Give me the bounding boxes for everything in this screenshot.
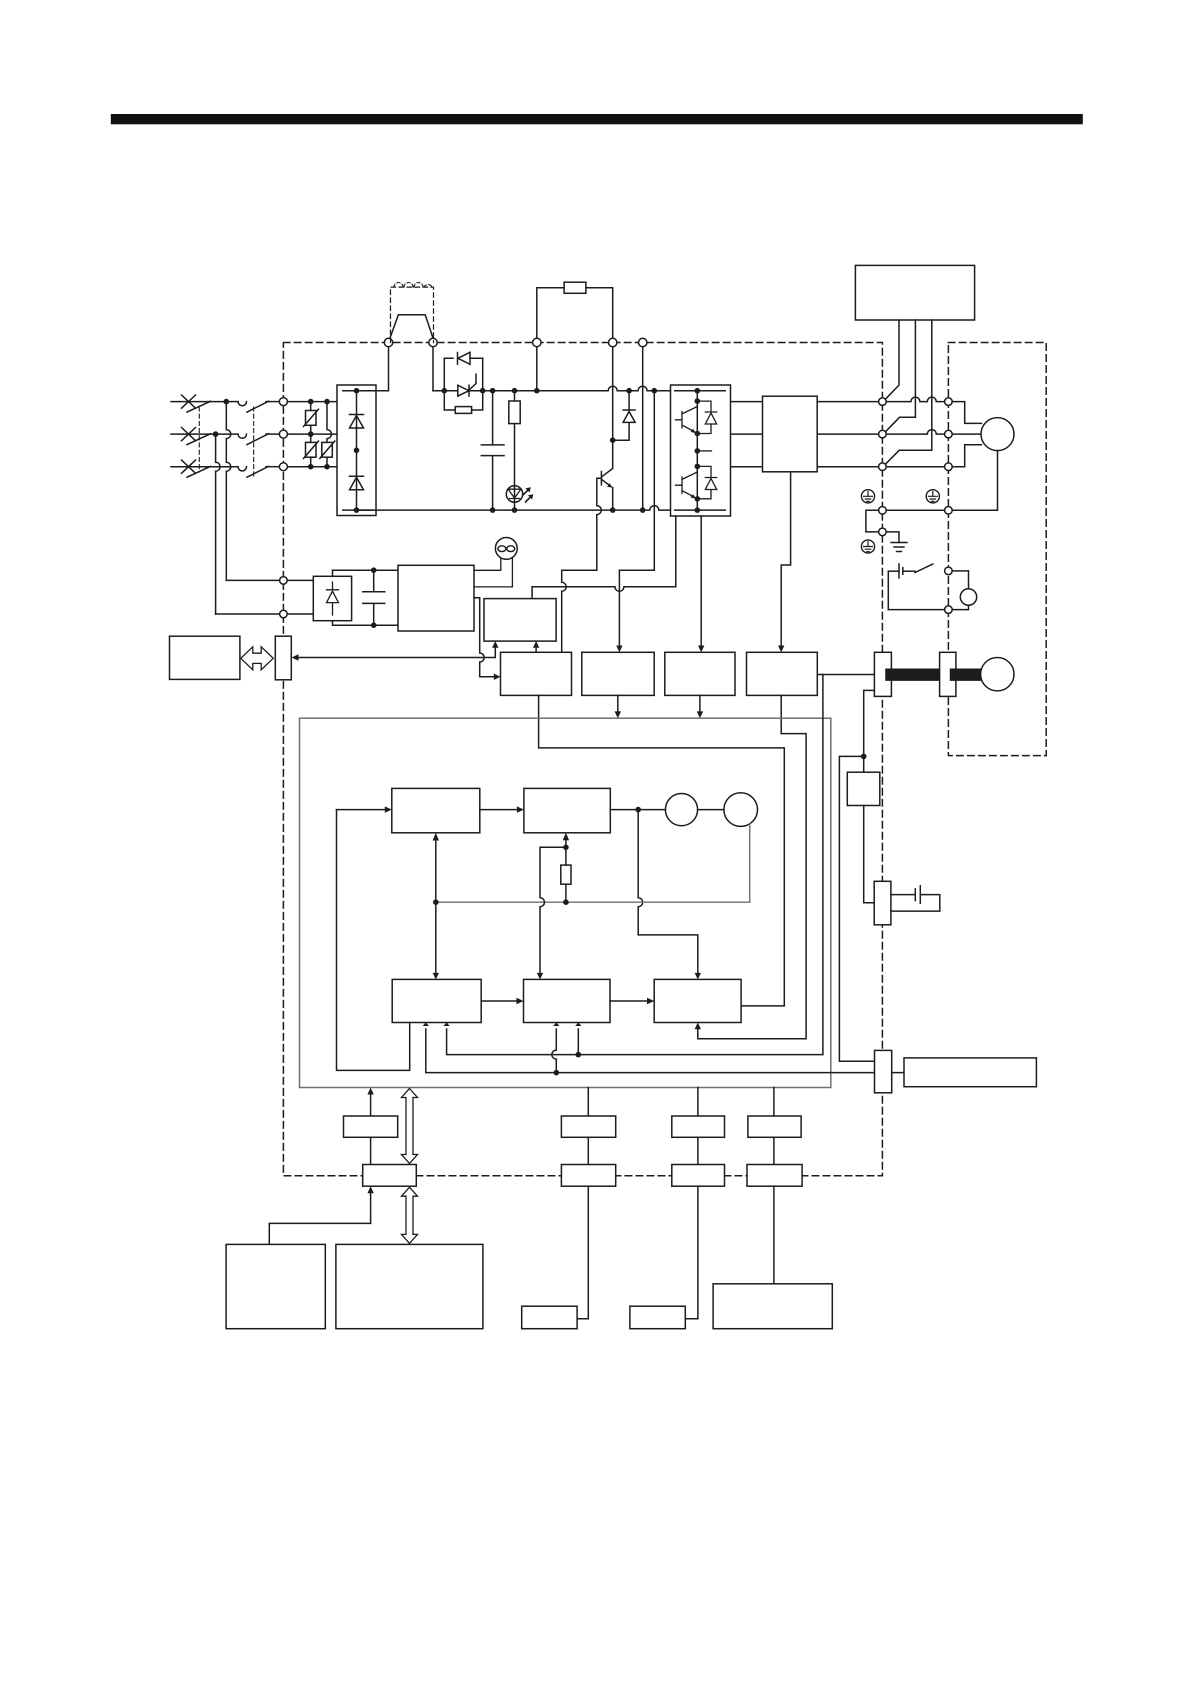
bottom wide box [713,1284,832,1329]
fuse X phase T [182,460,196,473]
speed control box B3 [654,979,741,1022]
brake bottom lead [888,609,944,611]
control DC plus rail [333,570,399,576]
wire L11 to rectifier [287,579,313,581]
module mid tap [697,450,711,452]
fuse X phase R [182,395,196,408]
arrow into box4 top [778,646,784,653]
wire motor PE to amplifier PE [886,509,944,511]
junction dot phase R [224,399,230,405]
external box lower left 2 [336,1244,483,1328]
fan wire V [886,320,915,431]
wire contact down to P bus [432,347,434,391]
CN2 connector [874,652,891,696]
wire command path CN1 line [426,1029,875,1073]
analog monitor chain c3 [697,1088,699,1117]
arrow box1 to protection box [535,647,537,653]
brake terminal B1 [945,567,953,575]
bridge top rail [343,390,373,392]
detector feedback wire to box4 [781,472,790,649]
arrow resistor into boxA2 bottom [565,840,567,848]
motor terminal U [945,398,953,406]
wire command into boxA1 [337,809,386,811]
wire phase R dot to MC [226,401,238,403]
regenerative option resistor [564,282,586,293]
wire V terminal to motor terminal (hops fan wire) [886,430,944,435]
wire CN1 branch into boxB2 (hops) [552,1029,557,1073]
arrow into boxB3 bottom [695,1023,701,1030]
control power supply box [398,565,474,631]
terminal L2 [279,430,287,438]
module emitter sense wire to protection box [532,516,676,599]
wire terminal C down (crosses P bus) [612,347,614,441]
arrow into CN3 right [292,654,299,660]
terminal C [609,338,617,346]
brake coil [960,589,976,605]
module output V [731,433,763,435]
position control box B2 [524,979,611,1022]
fuse X phase S [182,428,196,441]
hollow arrow CN1A to external box [402,1187,418,1243]
header rule bar [111,114,1083,124]
bypass diode (points left) [458,352,471,364]
regen freewheel diode [613,391,635,441]
bypass top rail right [470,358,483,390]
encoder circle [981,658,1014,691]
breaker blade phase T [187,466,211,477]
brake coil wires [952,571,968,610]
wire L1 to rectifier [287,401,337,403]
arrow up into protection box [492,641,498,648]
earth symbol [891,543,907,552]
fan wire U [886,320,899,398]
wire W terminal to motor terminal [886,466,944,468]
inrush thyristor bypass: left rail [444,358,453,390]
terminal L11 [280,577,288,585]
MC blade phase T [247,466,269,477]
amplifier PE terminal upper [879,507,887,515]
current detection box4 [747,652,818,695]
model circle 1 [665,794,697,826]
CN1 connector [875,1050,892,1092]
charge LED [506,486,522,502]
breaker blade phase S [187,434,211,445]
wire to L11 terminal [226,579,279,581]
terminal contact left [384,338,392,346]
varistor S-T [310,434,312,442]
wire bridge P output up to contact [357,347,389,391]
charge lamp return wire [474,558,512,587]
amplifier PE terminal lower [879,528,887,536]
digital I/O chain c2 [587,1088,589,1117]
breaker blade phase R [187,401,211,412]
brake power supply loop left [887,571,889,609]
arrow into alarm box2 top [616,646,622,653]
regen transistor [601,440,612,486]
encoder cable thick [891,669,939,681]
brake switch blade [915,564,933,573]
wire c2 to bottom small box 1 [577,1186,588,1319]
battery long plate [898,564,900,578]
module center leg [696,391,698,510]
base drive box3 [665,652,735,695]
detector output wires to terminals [817,402,878,467]
servo motor circle [981,418,1014,451]
wire c3 to bottom small box 2 [685,1186,698,1319]
wire battery to switch [903,570,915,572]
bypass resistor loop lower [444,391,455,410]
junction dots varistor taps [308,399,314,405]
motor winding wires [952,402,981,467]
terminal L3 [279,463,287,471]
comm chain c4 [773,1088,775,1117]
thyristor gate [470,374,477,389]
control DC minus rail [333,621,399,626]
bridge bottom rail [343,509,373,511]
wire CN2 lower to encoder interface box [864,690,875,772]
PE jumper [866,510,879,532]
N bus [357,506,671,510]
arrow into box3 top [698,646,704,653]
P bus voltage tap wire [619,391,654,649]
junction dot phase S [213,431,219,437]
wire U terminal to motor terminal (hops fan wires) [886,397,944,402]
wire down to L11 from phase R dot (hops S,T) [226,402,231,581]
connector c2 [561,1165,615,1187]
current detector box [763,396,818,472]
CN3 connector [275,636,291,680]
arrow box3 down to controller [699,695,701,714]
wire resistor branch to boxB2 (hops feedback) [540,847,566,976]
encoder cable thick motor side [956,669,982,681]
wire CN1 to command device [892,1072,904,1074]
display unit box [170,636,240,679]
servo amplifier dashed enclosure [283,343,882,1176]
bridge diode lower [350,476,364,490]
varistor R-T (hops S) [327,402,332,443]
PE symbol left lower [861,540,874,553]
terminal P [533,338,541,346]
bottom small box 2 [630,1306,685,1329]
inrush relay contact blade (trapezoid) [390,315,433,338]
MC blade phase R [247,401,269,412]
wire L2 to rectifier [287,433,337,435]
wire interface box to battery connector [864,806,875,903]
wire boxB1 to boxB2 [481,1000,516,1002]
module output W [731,466,763,468]
bidirectional hollow arrow display-CN3 [241,647,273,670]
terminal U [879,398,887,406]
module N rail [675,509,725,511]
motor ground wire [952,451,997,511]
brake battery top lead [888,570,899,572]
wire c4 to bottom wide box [773,1186,775,1284]
terminal contact right [429,338,437,346]
wire to L21 terminal [216,613,280,615]
cooling fan box [855,265,974,320]
module IGBT upper [676,407,698,432]
main smoothing capacitor [481,391,504,510]
wire boxA1 feedback vertical [435,840,437,976]
wire c1 to external controller box [370,1190,372,1223]
MC contact hook phase T [238,467,246,471]
module diode upper [697,401,716,433]
inrush relay dashed coil outline [391,287,434,342]
wire power supply to box1 [474,598,497,677]
MC contact hook phase S [216,434,247,438]
I/F chain arrow up into controller [370,1091,372,1116]
controller outer block [300,718,831,1087]
model speed control boxA2 [524,788,610,832]
virtual encoder resistor [565,884,567,902]
wire model torque tap down to boxB3 (hops feedback) [638,810,698,976]
wire phase T input [171,466,238,468]
wire L21 to rectifier [287,613,313,615]
brake terminal B2 [945,606,953,614]
overvoltage detection box2 [582,652,654,695]
module diode lower [697,466,716,498]
control rectifier box [313,576,351,620]
terminal W [879,463,887,471]
control rectifier diode [327,582,339,615]
PE symbol motor side [926,490,939,503]
IPM inverter module box [671,385,731,516]
encoder interface box [847,772,880,805]
wire box1 to current control [539,695,785,1006]
MCCB gang dashed tie [198,407,200,472]
wire box4 to current feedback [698,695,806,1038]
module output U [731,401,763,403]
terminal L1 [279,398,287,406]
charge lamp [495,538,517,560]
diode bridge rectifier box [337,385,376,516]
PE symbol left upper [861,490,874,503]
bridge diode upper [350,415,364,429]
terminal D [639,338,647,346]
wire phase S to terminal [266,433,280,435]
wire boxB1 output to boxA1 input [337,810,410,1071]
motor terminal W [945,463,953,471]
arrow into box1 left [494,674,501,680]
fan wire W [886,320,932,463]
control filter capacitor [363,570,385,625]
bridge center conductor [356,391,358,510]
wire to earth [886,532,899,543]
terminal L21 [280,610,288,618]
wire phase R input [171,401,226,403]
wire encoder pulse line [447,675,823,1055]
overcurrent protection box [484,599,556,642]
wire phase T to terminal [266,466,280,468]
battery connector [874,881,891,925]
connector c1 [363,1165,417,1187]
servo motor dashed enclosure [948,343,1046,756]
MC blade phase S [247,434,269,445]
motor encoder connector [940,652,956,696]
module gate wire to drive box3 [700,516,702,649]
motor ground terminal [945,507,953,515]
charge LED dropping resistor [514,391,516,401]
battery short plate [902,568,904,575]
battery for absolute encoder [891,886,940,911]
wire regen resistor left lead [537,288,564,339]
wire boxA2 to circles [610,809,665,811]
I/F box [344,1116,398,1137]
model position control boxA1 [392,788,480,832]
hollow arrow controller-CN1A [402,1089,418,1164]
wire phase S input [171,433,216,435]
bottom small box 1 [522,1306,577,1329]
module IGBT lower [676,472,698,497]
connector c3 [672,1165,725,1187]
wire box4 to CN2 [817,674,874,676]
wire L3 to rectifier [287,466,337,468]
wire boxA1 to boxA2 [480,809,517,811]
LED emission arrows [523,489,529,495]
module P rail [675,390,725,392]
external box lower left 1 [226,1244,325,1328]
regen transistor base wire (hops N bus) [562,478,602,652]
model feedback line (grey) [436,824,750,902]
wire terminal D down to N bus [642,347,644,510]
wire terminal P to bus [536,347,538,391]
model circle 2 [724,793,758,827]
arrow box2 down to controller [617,695,619,714]
MC contact hook phase R [238,402,246,406]
connector c4 [747,1165,802,1187]
wire down to L21 from phase S dot (hops T) [216,434,221,614]
thyristor in bus [458,385,469,396]
wire boxB2 to boxB3 [610,1000,647,1002]
wire interface tap to CN1 [839,756,874,1061]
varistor R-S [310,402,312,411]
terminal V [879,430,887,438]
P bus [433,386,671,391]
charge lamp feed wire [474,558,501,570]
voltage detection box1 [501,652,572,695]
motor terminal V [945,430,953,438]
MC gang dashed tie [253,407,255,478]
command device box [904,1058,1036,1087]
wire I/F box to CN1A connector [370,1137,372,1164]
wire protection to CN3 (alarm) [297,645,495,658]
wire phase R to terminal [266,401,280,403]
command pulse box B1 [392,979,481,1022]
wire branch into boxB2 bottom right [577,1029,579,1055]
wire regen resistor right lead [586,288,613,339]
